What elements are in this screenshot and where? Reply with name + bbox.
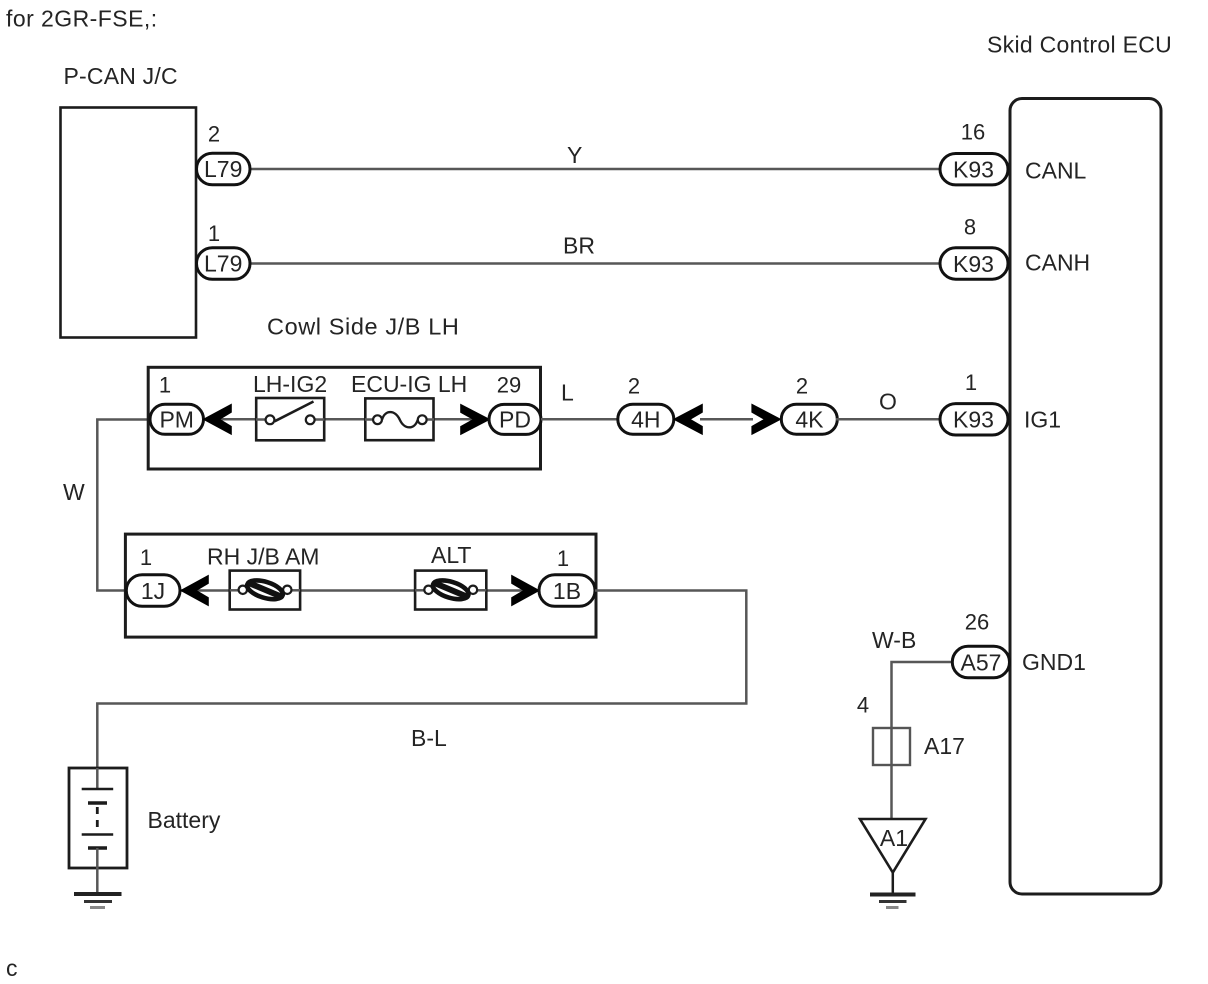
connector 4K pin 2 xyxy=(781,374,837,435)
svg-text:for 2GR-FSE,:: for 2GR-FSE,: xyxy=(6,6,158,32)
chevron arrow (right) before 4K xyxy=(752,405,780,434)
svg-text:4K: 4K xyxy=(795,406,824,432)
svg-text:K93: K93 xyxy=(953,407,994,433)
svg-text:2: 2 xyxy=(796,374,808,399)
connector K93 pin 1 (IG1) xyxy=(940,370,1008,435)
connector A17 pin 4 xyxy=(857,693,965,766)
fusible link ALT xyxy=(415,542,486,610)
fusible link RH J/B AM xyxy=(207,544,319,610)
wire inside J/B (IG1 row) xyxy=(203,418,489,421)
ground point triangle A1 xyxy=(860,819,926,873)
battery xyxy=(69,768,221,893)
svg-text:K93: K93 xyxy=(953,157,994,183)
svg-text:1: 1 xyxy=(208,221,220,246)
chevron arrow (left) after 4H xyxy=(674,405,702,434)
connector A57 pin 26 (GND1) xyxy=(952,610,1009,678)
connector K93 pin 16 (CANL) xyxy=(940,120,1008,185)
svg-text:2: 2 xyxy=(208,122,220,147)
connector 4H pin 2 xyxy=(618,374,674,435)
svg-text:1: 1 xyxy=(965,370,977,395)
wire BR (CANH) xyxy=(248,233,942,264)
svg-text:26: 26 xyxy=(965,610,989,635)
wire triangle apex to ground xyxy=(892,873,895,894)
svg-text:A57: A57 xyxy=(961,649,1002,675)
svg-text:ALT: ALT xyxy=(431,542,471,568)
switch LH-IG2 xyxy=(253,371,327,440)
chevron arrow (right) before 1B xyxy=(512,576,539,605)
junction connector P-CAN J/C box xyxy=(61,108,197,338)
svg-text:1: 1 xyxy=(557,546,569,571)
svg-text:Battery: Battery xyxy=(148,807,221,833)
wire O (4K to K93) xyxy=(836,389,942,420)
svg-text:4H: 4H xyxy=(631,406,660,432)
junction block Cowl Side J/B LH box xyxy=(148,367,540,469)
svg-text:CANH: CANH xyxy=(1025,250,1090,276)
wire W-B (A57 to A17) xyxy=(872,627,952,766)
wire B-L (1B to battery) xyxy=(97,591,746,791)
svg-text:CANL: CANL xyxy=(1025,158,1087,184)
chevron arrow (left) after PM xyxy=(204,405,231,434)
svg-text:O: O xyxy=(879,389,897,415)
svg-text:RH J/B AM: RH J/B AM xyxy=(207,544,319,570)
svg-text:c: c xyxy=(6,955,18,981)
svg-text:P-CAN J/C: P-CAN J/C xyxy=(64,63,178,89)
svg-text:BR: BR xyxy=(563,233,595,259)
svg-text:4: 4 xyxy=(857,693,869,718)
svg-text:16: 16 xyxy=(961,120,985,145)
connector K93 pin 8 (CANH) xyxy=(940,215,1008,280)
svg-text:W-B: W-B xyxy=(872,627,916,653)
svg-text:W: W xyxy=(63,479,85,505)
wire between connectors 4H and 4K xyxy=(700,418,753,421)
ground (battery) xyxy=(74,894,122,908)
wire A17 to ground triangle xyxy=(890,765,893,820)
svg-text:2: 2 xyxy=(628,374,640,399)
ground (A1) xyxy=(870,895,916,908)
svg-text:GND1: GND1 xyxy=(1022,649,1086,675)
svg-text:1J: 1J xyxy=(141,578,165,604)
junction block RH J/B box xyxy=(125,534,596,637)
wire L (PD to 4H) xyxy=(541,380,620,420)
wire W (vertical from IG1 row to lower J/B) xyxy=(63,420,148,591)
svg-text:ECU-IG LH: ECU-IG LH xyxy=(351,371,467,397)
svg-text:Skid Control ECU: Skid Control ECU xyxy=(987,32,1172,58)
svg-text:IG1: IG1 xyxy=(1024,407,1061,433)
chevron arrow (right) before PD xyxy=(461,405,489,434)
svg-text:L79: L79 xyxy=(204,156,242,182)
wire inside RH J/B row xyxy=(180,589,539,592)
svg-text:PD: PD xyxy=(499,407,531,433)
svg-text:Y: Y xyxy=(567,142,582,168)
svg-text:A1: A1 xyxy=(880,825,908,851)
svg-text:Cowl Side J/B LH: Cowl Side J/B LH xyxy=(267,314,459,340)
connector L79 pin 1 xyxy=(197,221,251,279)
connector 1J pin 1 xyxy=(126,545,180,606)
svg-text:8: 8 xyxy=(964,215,976,240)
svg-text:PM: PM xyxy=(159,407,194,433)
svg-text:29: 29 xyxy=(497,373,521,398)
wire Y (CANL) xyxy=(248,142,942,169)
connector 1B pin 1 xyxy=(539,546,595,606)
svg-text:L: L xyxy=(561,380,574,406)
svg-text:1B: 1B xyxy=(553,578,581,604)
fuse ECU-IG LH xyxy=(351,371,467,440)
svg-text:1: 1 xyxy=(140,545,152,570)
chevron arrow (left) after 1J xyxy=(182,576,209,605)
connector PD pin 29 xyxy=(489,373,541,435)
connector PM pin 1 xyxy=(150,373,204,435)
svg-text:K93: K93 xyxy=(953,251,994,277)
svg-text:LH-IG2: LH-IG2 xyxy=(253,371,327,397)
connector L79 pin 2 xyxy=(197,122,251,185)
svg-text:B-L: B-L xyxy=(411,725,447,751)
svg-text:A17: A17 xyxy=(924,733,965,759)
ECU U1 Skid Control ECU box xyxy=(1010,99,1161,895)
svg-text:L79: L79 xyxy=(204,251,242,277)
svg-text:1: 1 xyxy=(159,373,171,398)
